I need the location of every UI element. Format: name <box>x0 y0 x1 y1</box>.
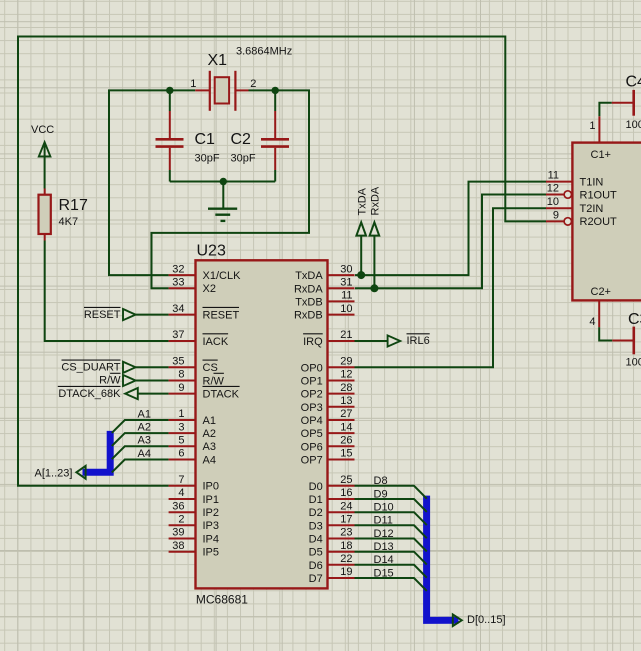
pin 10 RxDB U23 right <box>294 303 355 322</box>
pin 36 IP2 U23 left <box>169 500 219 519</box>
svg-text:25: 25 <box>340 474 352 486</box>
svg-text:IRQ: IRQ <box>303 336 323 348</box>
svg-text:10: 10 <box>547 196 559 208</box>
svg-text:8: 8 <box>178 369 184 381</box>
svg-text:D[0..15]: D[0..15] <box>467 614 506 626</box>
pin 11 T1IN U24 <box>546 170 603 189</box>
svg-text:27: 27 <box>340 408 352 420</box>
svg-text:3: 3 <box>178 421 184 433</box>
svg-text:DTACK: DTACK <box>203 388 240 400</box>
svg-text:OP1: OP1 <box>301 376 323 388</box>
svg-text:R/W: R/W <box>99 375 121 387</box>
pin 30 TxDA U23 right <box>295 263 354 282</box>
op-amp U24 MAX232 body <box>572 143 641 301</box>
pin 29 OP0 U23 right <box>301 356 355 375</box>
wire A3 bus entry <box>112 446 169 459</box>
pin 25 D0 U23 right <box>309 474 355 493</box>
svg-text:34: 34 <box>172 303 184 315</box>
pin 38 IP5 U23 left <box>169 540 219 559</box>
svg-text:X1: X1 <box>208 52 228 69</box>
svg-text:R1OUT: R1OUT <box>580 189 618 201</box>
svg-text:D0: D0 <box>309 481 323 493</box>
pin 4 C2- U24 <box>589 300 599 328</box>
svg-text:1: 1 <box>190 78 196 90</box>
svg-text:24: 24 <box>340 500 352 512</box>
svg-text:38: 38 <box>172 540 184 552</box>
pin 15 OP7 U23 right <box>301 448 355 467</box>
svg-text:12: 12 <box>340 369 352 381</box>
wire D15 bus entry <box>355 578 427 591</box>
pin 13 OP3 U23 right <box>301 395 355 414</box>
svg-text:A3: A3 <box>138 435 151 447</box>
capacitor C3 100n <box>612 311 641 369</box>
svg-text:11: 11 <box>548 170 559 182</box>
wire OP0 pin29 to T2IN <box>355 208 547 367</box>
svg-text:R2OUT: R2OUT <box>580 216 618 228</box>
svg-text:IACK: IACK <box>203 336 229 348</box>
pin 22 D6 U23 right <box>309 553 355 572</box>
svg-text:32: 32 <box>172 263 184 275</box>
svg-text:D1: D1 <box>309 494 323 506</box>
svg-text:D14: D14 <box>374 554 394 566</box>
svg-text:23: 23 <box>340 527 352 539</box>
svg-text:OP2: OP2 <box>301 389 323 401</box>
pin 14 OP5 U23 right <box>301 421 355 440</box>
capacitor C1 30pF <box>156 90 220 181</box>
svg-text:D12: D12 <box>374 528 394 540</box>
pin 33 X2 U23 left <box>169 277 216 296</box>
wire CS_DUART to pin 35 <box>136 366 169 368</box>
svg-text:15: 15 <box>340 448 352 460</box>
svg-text:A2: A2 <box>203 428 216 440</box>
wire RESET terminal to pin 34 <box>136 314 169 316</box>
svg-text:A4: A4 <box>138 448 151 460</box>
svg-text:X2: X2 <box>203 283 216 295</box>
pin 2 IP3 U23 left <box>169 514 219 533</box>
pin 19 D7 U23 right <box>309 566 355 585</box>
svg-text:C3: C3 <box>628 311 641 328</box>
svg-text:1: 1 <box>589 120 595 132</box>
svg-text:12: 12 <box>547 183 559 195</box>
svg-text:D11: D11 <box>374 515 393 527</box>
node junction TxDA pin30 <box>357 271 365 279</box>
svg-text:7: 7 <box>178 474 184 486</box>
wire TxDA pin30 to T1IN <box>355 182 546 276</box>
svg-text:U23: U23 <box>197 243 226 260</box>
svg-text:4K7: 4K7 <box>59 216 79 228</box>
svg-text:D9: D9 <box>374 488 388 500</box>
wire X1/CLK to crystal top rail <box>109 90 195 275</box>
svg-text:30pF: 30pF <box>195 153 220 165</box>
svg-text:28: 28 <box>340 382 352 394</box>
svg-text:D4: D4 <box>309 534 323 546</box>
wire D12 bus entry <box>355 539 427 552</box>
pin 39 IP4 U23 left <box>169 527 219 546</box>
node junction RxDA pin31 <box>370 284 378 292</box>
svg-text:A4: A4 <box>203 454 216 466</box>
svg-text:9: 9 <box>553 209 559 221</box>
svg-text:4: 4 <box>589 316 595 328</box>
pin 24 D2 U23 right <box>309 500 355 519</box>
crystal X1 <box>190 46 292 111</box>
pin 6 A4 U23 left <box>169 448 216 467</box>
wire D9 bus entry <box>355 499 427 512</box>
terminal CS_DUART <box>61 360 135 373</box>
wire crystal right to X2 <box>152 90 310 288</box>
svg-text:37: 37 <box>172 329 184 341</box>
svg-text:C1: C1 <box>195 131 216 148</box>
svg-text:OP0: OP0 <box>301 362 323 374</box>
svg-text:30pF: 30pF <box>231 153 256 165</box>
svg-text:29: 29 <box>340 356 352 368</box>
pin 35 CS U23 left <box>169 356 218 375</box>
svg-text:CS: CS <box>203 362 218 374</box>
terminal TxDA <box>356 187 368 235</box>
pin 12 OP1 U23 right <box>301 369 355 388</box>
terminal RESET <box>84 307 136 320</box>
svg-text:A2: A2 <box>138 422 151 434</box>
svg-text:TxDB: TxDB <box>295 296 323 308</box>
wire C1 C2 bottom rail <box>170 181 275 183</box>
wire VCC to R17 <box>44 157 46 189</box>
wire RxDA terminal down <box>373 236 375 289</box>
svg-text:1: 1 <box>178 408 184 420</box>
svg-text:39: 39 <box>172 527 184 539</box>
svg-text:RxDA: RxDA <box>370 186 382 215</box>
svg-text:13: 13 <box>340 395 352 407</box>
wire A2 bus entry <box>112 433 169 446</box>
ground <box>208 182 237 221</box>
wire A4 bus entry <box>112 460 169 473</box>
wire D10 bus entry <box>355 512 427 525</box>
svg-text:IP4: IP4 <box>203 533 220 545</box>
wire A1 bus entry <box>112 420 169 433</box>
svg-text:5: 5 <box>178 435 184 447</box>
svg-text:19: 19 <box>340 566 352 578</box>
wire DTACK_68K to pin 9 <box>138 393 169 395</box>
wire R/W to pin 8 <box>136 380 169 382</box>
svg-text:D2: D2 <box>309 507 323 519</box>
svg-text:6: 6 <box>178 448 184 460</box>
svg-text:22: 22 <box>340 553 352 565</box>
svg-text:OP7: OP7 <box>301 455 323 467</box>
pin 11 TxDB U23 right <box>295 290 354 309</box>
svg-text:D15: D15 <box>374 567 394 579</box>
terminal R/W <box>99 373 135 386</box>
svg-text:RxDB: RxDB <box>294 310 323 322</box>
pin 9 R2OUT U24 <box>546 209 617 228</box>
svg-text:RxDA: RxDA <box>294 283 323 295</box>
bus arrow A[1..23] <box>76 466 85 479</box>
svg-text:A1: A1 <box>138 408 151 420</box>
wire D13 bus entry <box>355 552 427 565</box>
node junction C1 top <box>166 87 173 94</box>
terminal DTACK_68K <box>58 386 138 399</box>
svg-text:4: 4 <box>178 487 184 499</box>
svg-text:14: 14 <box>340 421 352 433</box>
svg-text:X1/CLK: X1/CLK <box>203 270 242 282</box>
wire D14 bus entry <box>355 565 427 578</box>
svg-text:D8: D8 <box>374 475 388 487</box>
capacitor C4 100n <box>612 74 641 132</box>
svg-text:RESET: RESET <box>203 309 240 321</box>
pin 17 D3 U23 right <box>309 514 355 533</box>
svg-text:TxDA: TxDA <box>356 187 368 215</box>
svg-text:26: 26 <box>340 435 352 447</box>
wire IP0 to R2OUT outer loop <box>18 37 546 486</box>
svg-text:T2IN: T2IN <box>580 203 604 215</box>
pin 1 A1 U23 left <box>169 408 216 427</box>
svg-text:OP6: OP6 <box>301 441 323 453</box>
node junction ground rail <box>220 178 227 185</box>
pin 12 R1OUT U24 <box>546 183 617 202</box>
wire pin4 to C3 <box>599 327 612 340</box>
pin 28 OP2 U23 right <box>301 382 355 401</box>
op-amp U23 MC68681 body <box>196 243 328 607</box>
svg-text:IP0: IP0 <box>203 481 220 493</box>
resistor R17 4K7 <box>39 189 88 241</box>
pin 21 IRQ U23 right <box>303 329 354 348</box>
svg-text:VCC: VCC <box>31 124 54 136</box>
bus A[1..23] <box>83 431 111 472</box>
bus D[0..15] <box>427 496 459 621</box>
pin 18 D5 U23 right <box>309 540 355 559</box>
svg-text:IP2: IP2 <box>203 507 220 519</box>
wire pin1 to C4 <box>599 103 611 117</box>
svg-text:OP4: OP4 <box>301 415 323 427</box>
svg-text:TxDA: TxDA <box>295 270 323 282</box>
wire R17 to IACK <box>45 241 169 342</box>
svg-text:C1+: C1+ <box>591 149 612 161</box>
pin 4 IP1 U23 left <box>169 487 219 506</box>
pin 23 D4 U23 right <box>309 527 355 546</box>
svg-text:A3: A3 <box>203 441 216 453</box>
wire RxDA pin31 to R1OUT <box>355 195 546 289</box>
terminal RxDA <box>370 186 382 235</box>
svg-text:IP1: IP1 <box>203 494 220 506</box>
svg-text:OP3: OP3 <box>301 402 323 414</box>
wire IRQ to IRL6 <box>355 340 388 342</box>
svg-text:T1IN: T1IN <box>580 176 604 188</box>
pin 26 OP6 U23 right <box>301 435 355 454</box>
svg-text:IRL6: IRL6 <box>407 335 430 347</box>
pin 10 T2IN U24 <box>546 196 603 215</box>
svg-text:D6: D6 <box>309 560 323 572</box>
svg-text:21: 21 <box>340 329 352 341</box>
svg-text:DTACK_68K: DTACK_68K <box>58 388 121 400</box>
terminal IRL6 <box>388 334 430 347</box>
svg-text:A1: A1 <box>203 415 216 427</box>
svg-text:C2: C2 <box>231 131 252 148</box>
svg-text:C4: C4 <box>626 74 641 91</box>
svg-text:2: 2 <box>178 514 184 526</box>
pin 1 C1+ U24 <box>589 116 599 142</box>
node junction C2 top <box>272 87 279 94</box>
svg-text:D7: D7 <box>309 573 323 585</box>
svg-text:11: 11 <box>341 290 352 302</box>
svg-text:MC68681: MC68681 <box>196 593 248 607</box>
svg-text:10: 10 <box>340 303 352 315</box>
pin 3 A2 U23 left <box>169 421 216 440</box>
svg-text:31: 31 <box>340 277 352 289</box>
svg-text:D10: D10 <box>374 502 394 514</box>
pin 8 R/W U23 left <box>169 369 225 388</box>
svg-text:OP5: OP5 <box>301 428 323 440</box>
bus arrow D[0..15] <box>453 615 462 627</box>
pin 9 DTACK U23 left <box>169 382 240 401</box>
svg-text:CS_DUART: CS_DUART <box>61 362 120 374</box>
svg-text:100: 100 <box>626 357 641 369</box>
wire D11 bus entry <box>355 525 427 538</box>
pin 16 D1 U23 right <box>309 487 355 506</box>
svg-text:R/W: R/W <box>203 375 225 387</box>
svg-text:30: 30 <box>340 263 352 275</box>
pin 37 IACK U23 left <box>169 329 229 348</box>
svg-text:16: 16 <box>340 487 352 499</box>
capacitor C2 30pF <box>231 90 290 181</box>
svg-text:36: 36 <box>172 500 184 512</box>
svg-text:100: 100 <box>626 119 641 131</box>
svg-text:17: 17 <box>340 514 352 526</box>
pin 32 X1/CLK U23 left <box>169 263 241 282</box>
svg-text:35: 35 <box>172 356 184 368</box>
pin 27 OP4 U23 right <box>301 408 355 427</box>
wire TxDA terminal down <box>360 236 362 276</box>
svg-text:C2+: C2+ <box>591 286 612 298</box>
power VCC terminal <box>31 124 54 157</box>
svg-text:9: 9 <box>178 382 184 394</box>
svg-text:2: 2 <box>250 78 256 90</box>
svg-text:IP3: IP3 <box>203 520 220 532</box>
pin 5 A3 U23 left <box>169 435 216 454</box>
pin 31 RxDA U23 right <box>294 277 355 296</box>
svg-text:D5: D5 <box>309 547 323 559</box>
svg-text:IP5: IP5 <box>203 547 220 559</box>
svg-text:3.6864MHz: 3.6864MHz <box>236 46 292 58</box>
svg-text:RESET: RESET <box>84 309 121 321</box>
svg-text:R17: R17 <box>59 197 88 214</box>
wire D8 bus entry <box>355 486 427 499</box>
svg-text:18: 18 <box>340 540 352 552</box>
svg-text:D3: D3 <box>309 520 323 532</box>
svg-text:33: 33 <box>172 277 184 289</box>
pin 34 RESET U23 left <box>169 303 240 322</box>
svg-text:D13: D13 <box>374 541 394 553</box>
svg-text:A[1..23]: A[1..23] <box>35 468 73 480</box>
pin 7 IP0 U23 left <box>169 474 219 493</box>
